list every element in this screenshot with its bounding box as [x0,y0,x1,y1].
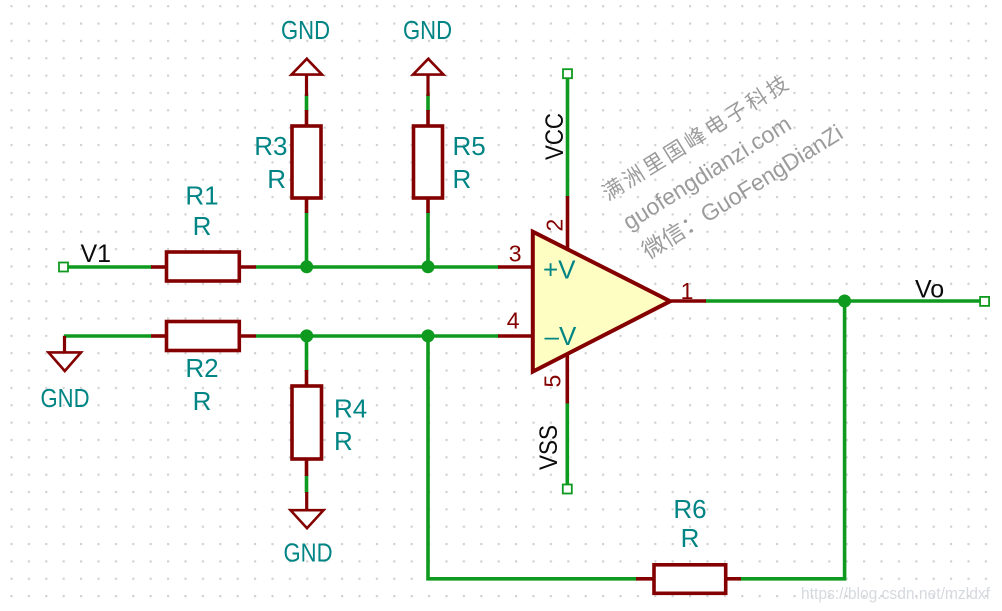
wire R1 to op-amp pin 3 [255,265,499,269]
resistor R4 [292,370,322,476]
op-amp U1 [498,196,706,403]
svg-text:GND: GND [41,383,90,413]
svg-text:V1: V1 [81,240,112,268]
wire GND to R5 [426,94,430,111]
op-amp pin 3 [498,265,531,269]
junction node C (R4 / R2 row) [300,329,313,342]
svg-text:R: R [193,211,212,241]
svg-text:https://blog.csdn.net/mzldxf: https://blog.csdn.net/mzldxf [801,585,990,603]
svg-text:–V: –V [545,321,577,351]
svg-text:R1: R1 [185,181,218,211]
op-amp pin 1 [671,299,706,303]
resistor R1 [151,252,256,281]
svg-text:VCC: VCC [541,113,569,160]
wire V1 to R1 [64,265,152,269]
svg-text:Vo: Vo [915,275,944,303]
wire R3 to node A [305,212,309,267]
wire node D down to R6 [428,336,637,579]
wire op-amp pin 5 to VSS [565,402,569,486]
watermark diagonal text [598,62,847,266]
svg-text:R: R [681,523,700,553]
wire GND to R3 [305,94,309,111]
terminal square VSS [563,485,572,494]
svg-text:1: 1 [681,278,694,304]
terminal square Vo [980,297,989,306]
svg-text:R5: R5 [453,131,486,161]
svg-text:R: R [334,426,353,456]
junction node D (feedback / R2 row) [422,329,435,342]
svg-text:R2: R2 [185,353,218,383]
wire R2 to op-amp pin 4 [255,334,499,338]
svg-text:+V: +V [543,254,576,284]
resistor R3 [292,110,321,213]
wire op-amp pin 1 to Vo [705,299,981,303]
op-amp pin 4 [498,334,531,338]
resistor R6 [636,565,741,594]
wire node C to R4 [305,336,309,371]
wire VCC to op-amp pin 2 [566,77,570,197]
svg-text:R: R [267,164,286,194]
svg-text:GND: GND [284,538,333,568]
op-amp pin 5 [565,354,569,404]
svg-text:3: 3 [509,241,522,267]
svg-text:4: 4 [507,308,520,334]
svg-text:R3: R3 [254,131,287,161]
ground symbol top left (above R3) [281,15,330,96]
ground symbol bottom (below R4) [284,492,333,568]
svg-text:R: R [193,386,212,416]
terminal square VCC [563,69,572,78]
svg-text:5: 5 [540,375,566,388]
op-amp pin 2 [566,196,570,249]
junction node A (R3 / R1 row) [300,260,313,273]
svg-text:R4: R4 [334,394,367,424]
svg-text:2: 2 [542,219,568,232]
svg-text:R6: R6 [673,494,706,524]
ground symbol top right (above R5) [403,15,452,96]
terminal square V1 [59,263,68,272]
junction node E (output / feedback) [838,295,851,308]
wire R5 to node B [426,212,430,267]
wire R4 to GND [305,475,309,493]
svg-text:GND: GND [403,15,452,45]
wire R6 to output node E [740,301,845,579]
svg-text:VSS: VSS [535,425,563,470]
resistor R2 [151,322,256,351]
junction node B (R5 / R1 row) [422,260,435,273]
ground symbol left (R2 input) [41,336,90,413]
svg-text:GND: GND [281,15,330,45]
wire GND stub row2 [64,334,152,338]
svg-text:R: R [453,164,472,194]
resistor R5 [414,110,443,213]
